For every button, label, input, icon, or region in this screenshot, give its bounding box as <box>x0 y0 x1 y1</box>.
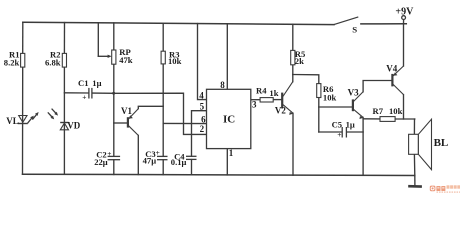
potentiometer RP wiper arrowhead <box>108 55 112 58</box>
wire C2 to bottom rail <box>113 160 115 175</box>
wire IC pin4 up to top rail <box>198 24 207 100</box>
resistor R2 <box>62 53 66 67</box>
wire R3 branch top <box>162 24 164 51</box>
wire R3 bottom through emitter node and pin6 node to C3 <box>162 64 164 156</box>
wire R5 branch top <box>292 24 294 50</box>
LED VL <box>18 116 28 124</box>
resistor R6 <box>317 84 321 98</box>
photodiode VD <box>60 123 68 130</box>
wire C5 right to V3 emitter line <box>347 131 363 133</box>
ground <box>408 185 422 188</box>
transistor V2 <box>282 82 293 114</box>
wire RP branch from rail <box>113 23 115 50</box>
wire V2 collector riser <box>292 75 294 82</box>
wire RP bottom through C1 junction to V1 base level down to C2 <box>113 64 115 156</box>
capacitor C2 <box>108 156 121 159</box>
wire V3 emitter to bottom rail <box>362 117 364 175</box>
svg-text:S: S <box>352 24 357 34</box>
wire IC pin5 down to C4 <box>192 111 207 157</box>
svg-text:8: 8 <box>220 80 225 90</box>
wire V2 emitter to bottom rail <box>292 113 294 175</box>
wire R6 bottom through V3 base node to C5 <box>318 98 320 133</box>
svg-text:+: + <box>107 149 111 158</box>
svg-text:V3: V3 <box>348 88 359 98</box>
resistor R4 <box>260 98 273 102</box>
transistor V3 emitter arrowhead <box>359 116 363 119</box>
wire junction to IC pin2: horizontal, down, horizontal <box>114 93 207 134</box>
svg-text:10k: 10k <box>168 56 182 66</box>
wire V3 collector riser and V4 base <box>363 81 392 92</box>
wire C3 to bottom rail <box>162 160 164 175</box>
svg-text:6: 6 <box>201 114 206 124</box>
wire top rail <box>23 22 334 24</box>
wire C1 left segment from R2/VD branch <box>64 92 88 94</box>
svg-text:22μ: 22μ <box>94 157 108 167</box>
svg-text:+: + <box>156 148 160 157</box>
wire R1 branch top <box>22 22 24 53</box>
svg-text:R4: R4 <box>256 86 267 96</box>
wire node to R6 top <box>293 75 319 84</box>
wire IC pin3 to R4 <box>251 99 260 101</box>
wire bottom rail <box>23 174 415 175</box>
wire R4 to V2 base <box>273 99 282 101</box>
svg-text:3: 3 <box>252 100 257 110</box>
wire RP wiper arrow horizontal <box>98 55 109 57</box>
node +9V terminal <box>402 16 406 20</box>
transistor V1 emitter arrowhead <box>129 115 133 118</box>
svg-text:1μ: 1μ <box>92 78 101 88</box>
transistor V1 <box>128 109 138 136</box>
svg-text:V2: V2 <box>275 106 286 116</box>
svg-text:C5: C5 <box>332 119 343 129</box>
wire rail to ground symbol <box>414 176 416 186</box>
svg-text:1: 1 <box>229 148 234 158</box>
svg-text:0.1μ: 0.1μ <box>171 157 187 167</box>
wire R1 to VL to bottom rail <box>22 67 24 174</box>
svg-text:C1: C1 <box>78 78 89 88</box>
wire V1 emitter to R3 line <box>138 106 163 108</box>
transistor V3 <box>353 92 363 118</box>
svg-text:2k: 2k <box>295 56 304 66</box>
capacitor C1 <box>89 88 92 99</box>
svg-text:4: 4 <box>199 91 204 101</box>
wire R2 to VD to bottom rail <box>63 67 65 174</box>
wire C5 left <box>319 131 342 133</box>
svg-text:10k: 10k <box>323 92 337 102</box>
wire IC pin6 to R3 line <box>163 122 206 124</box>
svg-text:IC: IC <box>223 114 235 126</box>
wire R7 right to speaker drop <box>395 118 415 120</box>
capacitor C5 <box>342 127 346 138</box>
svg-text:2: 2 <box>200 124 205 134</box>
capacitor C4 <box>186 156 197 159</box>
wire C4 to bottom rail <box>191 160 193 175</box>
svg-text:+: + <box>82 92 86 101</box>
wire IC pin8 from top rail <box>226 24 228 90</box>
wire V3 base <box>319 106 353 108</box>
svg-text:BL: BL <box>434 137 449 149</box>
wire V1 base from RP line <box>114 122 128 124</box>
svg-text:+: + <box>337 130 341 139</box>
resistor R5 <box>291 50 295 64</box>
resistor R1 <box>21 53 25 67</box>
wire speaker top drop <box>413 119 415 134</box>
wire IC pin1 to bottom rail <box>226 149 228 175</box>
resistor R3 <box>161 51 165 64</box>
wire R7 left <box>363 118 380 120</box>
LED VL light arrows <box>27 116 34 124</box>
capacitor C3 <box>157 156 168 159</box>
wire V4 emitter riser to +9V <box>403 24 405 66</box>
speaker BL <box>409 119 432 169</box>
wire +9V terminal stem <box>403 19 405 24</box>
transistor V4 <box>392 66 403 95</box>
transistor V4 emitter arrowhead <box>393 72 397 75</box>
wire R2 branch top <box>63 23 65 54</box>
wire V4 collector down to R7 wire <box>403 95 405 119</box>
wire RP wiper from rail <box>97 23 99 57</box>
switch S <box>334 17 358 25</box>
watermark logo <box>430 185 460 193</box>
node junction C1/RP <box>112 92 115 95</box>
svg-text:5: 5 <box>200 102 205 112</box>
svg-text:6.8k: 6.8k <box>45 57 61 67</box>
svg-text:1μ: 1μ <box>346 119 355 129</box>
wire top rail right segment after switch <box>361 23 406 25</box>
wire speaker bottom to rail <box>413 154 415 175</box>
svg-text:47k: 47k <box>119 55 133 65</box>
potentiometer RP <box>112 50 116 64</box>
wire R5 bottom to node <box>292 65 294 75</box>
svg-text:+9V: +9V <box>395 6 414 17</box>
svg-text:1k: 1k <box>269 88 278 98</box>
svg-text:R7: R7 <box>373 106 384 116</box>
svg-text:10k: 10k <box>389 106 403 116</box>
transistor V2 emitter arrowhead <box>289 112 293 115</box>
wire C1 right segment to junction <box>92 92 113 94</box>
svg-text:8.2k: 8.2k <box>4 57 20 67</box>
svg-text:V1: V1 <box>121 106 132 116</box>
svg-text:VL: VL <box>6 116 19 126</box>
svg-text:47μ: 47μ <box>143 155 157 165</box>
IC U1 box <box>207 89 251 148</box>
svg-text:V4: V4 <box>386 63 397 73</box>
photodiode VD light arrows <box>47 112 54 119</box>
svg-text:VD: VD <box>67 120 80 130</box>
wire V1 collector to bottom rail <box>137 135 139 174</box>
resistor R7 <box>380 117 395 122</box>
